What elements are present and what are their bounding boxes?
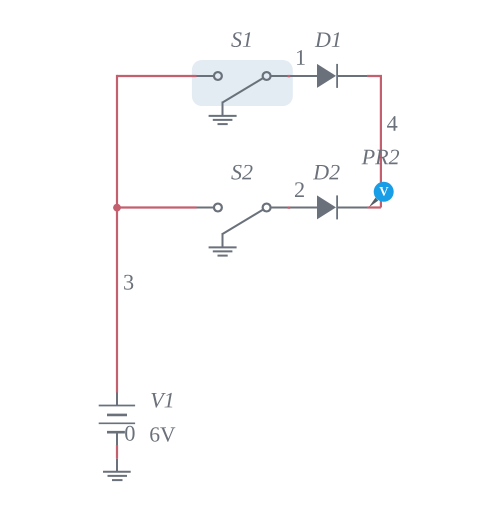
label S2: [231, 165, 252, 180]
switch S1: [197, 72, 318, 116]
probe PR2 needle: [369, 198, 379, 208]
probe PR2 circle: [374, 182, 394, 202]
wire: left vertical net 3: [116, 75, 118, 393]
wire: net 4 stub from D2 to corner: [367, 206, 381, 208]
highlight box around S1: [192, 60, 293, 106]
label net 4: [387, 116, 397, 131]
switch S2: [197, 204, 318, 248]
ground under S1: [209, 116, 237, 124]
junction node at S2 branch: [113, 204, 121, 212]
battery V1: [99, 393, 135, 446]
wire: branch to S2: [117, 206, 197, 208]
label S1: [231, 32, 250, 47]
label D2: [313, 165, 340, 180]
wire: net 4 from D1 down to probe: [367, 76, 381, 208]
label net 2: [295, 182, 304, 197]
label net 0 (white backed): [125, 427, 137, 442]
label PR2: [362, 150, 400, 165]
label V1: [151, 393, 172, 408]
label net 3: [124, 275, 133, 290]
diode D1: [317, 64, 367, 88]
ground under battery: [103, 459, 131, 480]
wire: top horizontal net 3 to S1: [117, 75, 197, 77]
ground under S2: [209, 247, 237, 255]
wire: battery minus to ground (net 0): [116, 445, 118, 459]
label net 1: [297, 50, 305, 65]
diode D2: [317, 195, 367, 219]
probe PR2 letter V: [379, 187, 388, 196]
label D1: [315, 32, 340, 47]
node 2 wire stub between S2 and D2: [288, 206, 291, 208]
node 1 wire stub between S1 and D1: [288, 75, 291, 77]
label 6V: [150, 427, 175, 442]
